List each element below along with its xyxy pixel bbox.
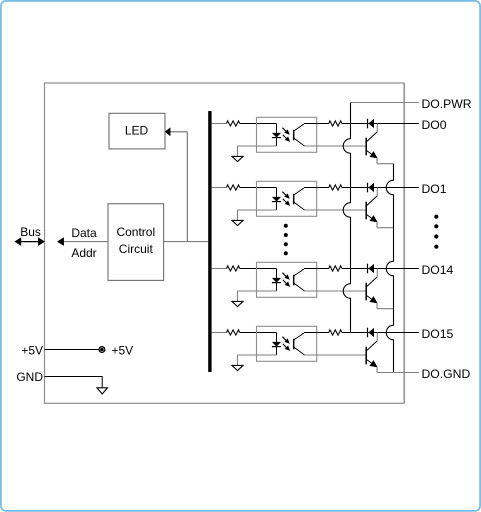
svg-text:Addr: Addr (71, 246, 96, 260)
svg-text:DO.PWR: DO.PWR (422, 97, 472, 111)
svg-text:DO.GND: DO.GND (422, 367, 471, 381)
svg-text:GND: GND (16, 370, 43, 384)
svg-text:DO14: DO14 (422, 263, 454, 277)
svg-text:DO15: DO15 (422, 327, 454, 341)
svg-text:DO1: DO1 (422, 182, 447, 196)
svg-text:Control: Control (116, 225, 155, 239)
svg-text:Bus: Bus (20, 225, 41, 239)
svg-text:LED: LED (125, 123, 149, 137)
svg-text:DO0: DO0 (422, 118, 447, 132)
svg-text:+5V: +5V (112, 343, 134, 357)
svg-text:Circuit: Circuit (119, 242, 154, 256)
svg-text:Data: Data (71, 226, 97, 240)
svg-text:+5V: +5V (21, 343, 43, 357)
